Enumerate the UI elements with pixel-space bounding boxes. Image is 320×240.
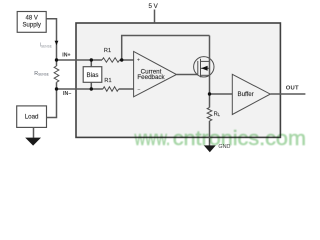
wire load to IN- node: [47, 89, 57, 118]
ground (circuit GND): [204, 145, 216, 152]
svg-text:ISENSE: ISENSE: [40, 43, 52, 49]
svg-text:RSENSE: RSENSE: [34, 71, 49, 77]
svg-text:48 V: 48 V: [26, 15, 38, 21]
current arrow ISENSE: [55, 41, 59, 46]
svg-text:R1: R1: [104, 78, 111, 84]
node bias bottom: [90, 87, 93, 90]
node feedback tap: [120, 58, 123, 61]
svg-text:+: +: [137, 57, 140, 63]
op-amp U2 (Current Feedback): [134, 51, 177, 96]
transistor Q1 (MOSFET): [194, 57, 214, 78]
svg-text:R1: R1: [104, 48, 111, 54]
IC body U1: [76, 23, 280, 137]
bias block: [83, 67, 102, 83]
wire RL to ground: [209, 121, 211, 146]
svg-text:Load: Load: [25, 114, 39, 121]
wire bias top stub: [90, 60, 92, 67]
svg-text:OUT: OUT: [286, 85, 299, 91]
svg-text:Bias: Bias: [86, 72, 98, 79]
wire bias bottom stub: [90, 82, 92, 89]
wire source node to buffer: [210, 93, 233, 95]
node source/RL/buffer: [208, 92, 211, 95]
node IN+ junction: [55, 58, 58, 61]
resistor RL (vertical): [207, 108, 212, 121]
wire drain-source vertical: [209, 36, 211, 95]
svg-text:Buffer: Buffer: [238, 91, 254, 98]
node bias top: [90, 58, 93, 61]
svg-text:Feedback: Feedback: [137, 74, 165, 81]
wire OUT: [270, 93, 305, 95]
power rail 5V stub: [154, 10, 156, 23]
svg-text:IN+: IN+: [62, 53, 70, 59]
load block: [17, 106, 47, 128]
svg-text:5 V: 5 V: [148, 3, 158, 10]
svg-text:cntronics.com: cntronics.com: [173, 127, 306, 149]
svg-text:IN−: IN−: [63, 91, 71, 97]
wire supply to IN+ node: [46, 19, 56, 60]
feedback wire: [122, 36, 210, 61]
wire load bottom stub: [33, 127, 35, 137]
ground (load GND): [25, 138, 41, 146]
resistor RSENSE (vertical): [54, 66, 59, 82]
node IN- junction: [55, 87, 58, 90]
wire IN+ rail: [57, 59, 103, 61]
svg-text:−: −: [137, 87, 140, 93]
wire op-amp output to gate: [177, 74, 198, 76]
svg-text:www.: www.: [134, 127, 171, 150]
svg-text:RL: RL: [214, 112, 221, 118]
svg-text:Supply: Supply: [23, 23, 41, 29]
resistor R1 (top): [102, 58, 120, 63]
buffer amplifier U3: [232, 74, 270, 114]
watermark: [134, 127, 306, 150]
wire IN- rail: [57, 88, 103, 90]
resistor R1 (bottom): [103, 87, 119, 92]
supply source V1 (48 V Supply box): [17, 12, 46, 33]
